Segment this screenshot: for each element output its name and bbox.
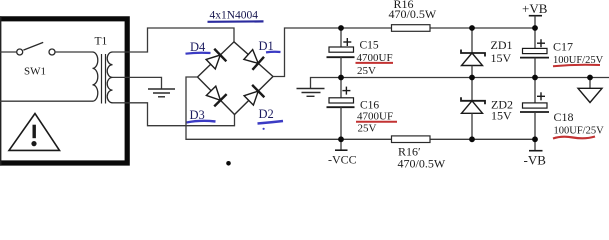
wire -VCC rail right of R16': [430, 138, 535, 140]
wire bridge positive output riser: [273, 28, 392, 77]
svg-text:15V: 15V: [491, 51, 512, 65]
wire mains to switch: [0, 51, 17, 53]
ground mid rail symbol: [297, 89, 325, 97]
stray ink dot: [226, 161, 231, 166]
svg-text:-VB: -VB: [524, 153, 547, 168]
svg-text:D2: D2: [259, 107, 274, 121]
terminal -VB: [524, 139, 547, 167]
svg-text:100UF/25V: 100UF/25V: [554, 125, 605, 136]
capacitor C18: [520, 78, 549, 140]
terminal -VCC: [328, 139, 357, 166]
junction dot mid rail output ground: [587, 75, 593, 81]
underline D1: [266, 51, 281, 54]
blue speck below D2 underline: [263, 128, 265, 130]
junction dot mid rail C17/C18: [532, 75, 538, 81]
wire switch to transformer primary: [55, 51, 92, 53]
svg-text:+VB: +VB: [522, 1, 548, 16]
junction dot +rail ZD1: [469, 25, 475, 31]
underline D3: [187, 121, 216, 123]
zener ZD1: [461, 28, 485, 78]
capacitor C15: [327, 28, 355, 78]
red underline C17 value: [553, 65, 600, 67]
junction dot -rail C16/-VCC: [338, 136, 344, 142]
ground center tap: [148, 89, 175, 97]
red underline C15 value: [356, 62, 394, 64]
capacitor C16: [327, 78, 355, 140]
underline 4x1N4004: [208, 20, 264, 23]
svg-text:4x1N4004: 4x1N4004: [210, 10, 259, 22]
diode D1: [242, 48, 264, 70]
junction dot -rail C18/-VB: [532, 136, 538, 142]
junction dot +rail C17/+VB: [532, 25, 538, 31]
resistor R16: [392, 25, 431, 32]
wire secondary top lead to AC top rail: [113, 28, 235, 52]
wire secondary center tap: [113, 77, 162, 89]
svg-text:C16: C16: [360, 99, 379, 111]
enclosure box thick border: [0, 19, 127, 163]
wire +VB rail right of R16: [430, 27, 535, 29]
junction dot mid rail ZD1/ZD2: [469, 75, 475, 81]
enclosure left edge line: [0, 16, 2, 165]
diode D3: [205, 85, 227, 107]
switch SW1: [17, 42, 55, 55]
capacitor C17: [520, 28, 549, 78]
svg-text:T1: T1: [95, 36, 108, 48]
zener ZD2: [461, 78, 485, 140]
wire secondary bottom lead to AC bottom rail: [113, 103, 235, 126]
junction dot +rail C15: [338, 25, 344, 31]
svg-text:C15: C15: [360, 40, 379, 52]
svg-text:15V: 15V: [491, 108, 512, 122]
terminal +VB: [522, 1, 548, 28]
wire transformer primary bottom lead: [0, 100, 93, 102]
transformer T1 primary winding: [93, 52, 98, 101]
red underline C16 value: [356, 121, 397, 123]
ground output triangle: [578, 78, 602, 103]
bridge rectifier edges: [198, 42, 274, 115]
transformer T1 secondary winding: [107, 52, 112, 103]
svg-text:ZD1: ZD1: [491, 38, 513, 52]
warning triangle: [9, 114, 60, 151]
junction dot -rail ZD2: [469, 136, 475, 142]
wire bridge negative output to -VCC rail: [186, 77, 392, 139]
wire ground mid rail: [311, 78, 609, 89]
diode D4: [205, 49, 227, 71]
underline D4: [186, 52, 211, 55]
diode D2: [243, 85, 265, 107]
svg-text:C17: C17: [553, 39, 573, 53]
svg-text:25V: 25V: [357, 65, 376, 77]
svg-text:470/0.5W: 470/0.5W: [389, 7, 437, 21]
svg-text:470/0.5W: 470/0.5W: [398, 156, 446, 170]
junction dot mid rail C15/C16: [338, 75, 344, 81]
transformer T1 core: [102, 54, 106, 104]
resistor R16': [392, 136, 431, 143]
svg-text:C18: C18: [554, 110, 574, 124]
svg-text:25V: 25V: [358, 123, 377, 135]
svg-text:SW1: SW1: [24, 66, 46, 78]
underline D2: [258, 121, 284, 124]
svg-text:-VCC: -VCC: [328, 152, 357, 166]
red underline C18 value: [553, 137, 595, 139]
